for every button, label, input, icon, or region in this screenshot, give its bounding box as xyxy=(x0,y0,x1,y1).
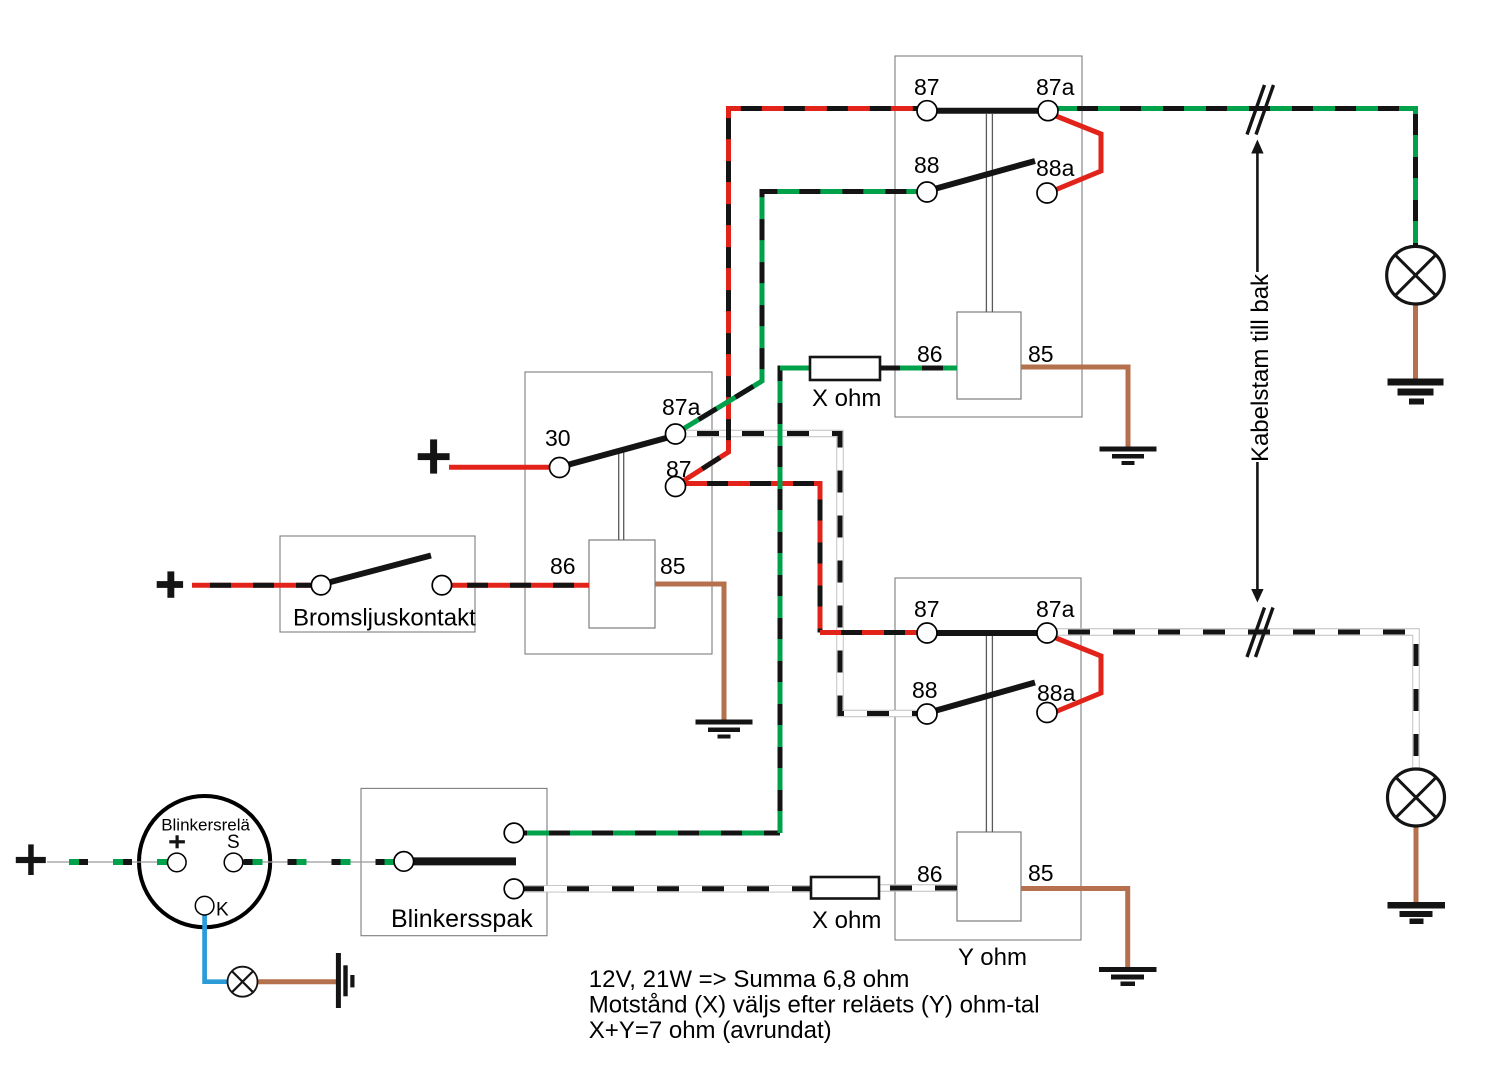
relay U1 coil xyxy=(957,312,1021,399)
svg-text:87: 87 xyxy=(914,74,940,100)
svg-text:X ohm: X ohm xyxy=(812,385,881,412)
svg-text:S: S xyxy=(227,832,240,853)
wire W20 brown lamp L3 to ground xyxy=(257,979,337,984)
wire W2 red/black +terminal to S1 left pin xyxy=(192,583,316,588)
wire W18 thin green/black K1-S pin to S2 left pin xyxy=(234,861,404,863)
switch S2 lower right pin xyxy=(504,879,524,899)
relay U3 coil xyxy=(957,832,1021,921)
ground GND5 below lamp L2 xyxy=(1388,902,1446,924)
svg-text:88: 88 xyxy=(914,152,940,178)
svg-text:86: 86 xyxy=(550,553,576,579)
relay K1 K pin xyxy=(195,896,214,915)
ground GND6 sideways right of lamp L3 xyxy=(336,953,355,1008)
relay K1 S pin xyxy=(224,853,243,872)
relay U3 contact bar 87-87a xyxy=(927,630,1047,636)
svg-text:87a: 87a xyxy=(662,394,701,420)
svg-text:Blinkersspak: Blinkersspak xyxy=(391,905,533,933)
svg-text:85: 85 xyxy=(660,553,686,579)
wire W6 red/black U2-87 to U3-87 xyxy=(678,484,927,633)
svg-text:X ohm: X ohm xyxy=(812,907,881,934)
resistor R2 X ohm xyxy=(811,877,879,899)
relay U1 pin 87 xyxy=(917,101,937,121)
svg-text:Bromsljuskontakt: Bromsljuskontakt xyxy=(293,605,476,632)
arrow Kabelstam till bak xyxy=(1251,140,1263,603)
wire W17 thin green/black +terminal to K1 plus pin xyxy=(47,861,177,863)
wire W14 white/black U3-87a to rear lamp L2 xyxy=(1047,632,1416,769)
svg-text:85: 85 xyxy=(1028,860,1054,886)
wire W5 red/black U2-87 up to U1-87 xyxy=(677,109,927,486)
wire W10 green/black U1-87a to rear lamp L1 xyxy=(1048,109,1416,248)
svg-text:Kabelstam till bak: Kabelstam till bak xyxy=(1247,273,1274,462)
ground GND4 below lamp L1 xyxy=(1388,379,1444,405)
relay U1 red bridge 87a-88a xyxy=(1055,116,1101,190)
relay U1 switch arm 88 xyxy=(936,161,1035,189)
wire W16 brown U3-85 to ground xyxy=(1021,889,1128,968)
svg-text:X+Y=7 ohm (avrundat): X+Y=7 ohm (avrundat) xyxy=(589,1017,832,1044)
svg-text:12V, 21W => Summa 6,8 ohm: 12V, 21W => Summa 6,8 ohm xyxy=(589,966,910,993)
relay U2 pin 87 xyxy=(666,477,686,497)
svg-text:88a: 88a xyxy=(1037,680,1076,706)
svg-text:87a: 87a xyxy=(1036,74,1075,100)
relay U2 pin 87a xyxy=(666,424,686,444)
svg-text:87a: 87a xyxy=(1036,596,1075,622)
relay U3 pin 88a xyxy=(1037,703,1057,723)
relay U2 box (middle relay) xyxy=(525,372,712,654)
svg-text:88: 88 xyxy=(912,677,938,703)
ground GND1 below U2 xyxy=(696,720,753,739)
lamp L3 indicator pilot xyxy=(228,967,258,997)
svg-text:86: 86 xyxy=(917,861,943,887)
wire W11 brown lamp L1 to ground xyxy=(1413,303,1418,379)
wire W12 white/black U2-87a to U3-88 xyxy=(676,434,927,714)
switch S1 left pin xyxy=(311,576,330,595)
relay U3 actuator link xyxy=(986,636,992,832)
relay K1 plus pin xyxy=(168,853,187,872)
resistor R1 X ohm xyxy=(810,357,880,380)
plus terminal P1 (to relay U2 pin 30) xyxy=(418,439,450,473)
switch S2 left pin xyxy=(394,852,414,872)
relay U3 pin 88 xyxy=(917,704,937,724)
ground GND3 below U3 xyxy=(1099,967,1157,986)
lamp L2 rear indicator bottom xyxy=(1388,769,1445,826)
relay K1 Blinkersrelä body circle xyxy=(139,796,270,927)
wire W9 brown U1-85 to ground xyxy=(1021,367,1128,447)
plus terminal P3 (to K1) xyxy=(16,844,46,875)
relay U3 pin 87a xyxy=(1037,623,1057,643)
wire W3 red/black S1 right pin to U2-86 xyxy=(448,583,589,588)
relay U1 actuator link xyxy=(986,114,992,312)
switch S2 upper right pin xyxy=(504,823,524,843)
svg-text:87: 87 xyxy=(666,456,692,482)
wire W1 red solid +terminal to U2-30 xyxy=(449,465,555,470)
wire W4 brown U2-85 to ground xyxy=(655,584,724,720)
wire W13 white/black S2 lower pin to resistor R2 to U3-86 xyxy=(524,884,957,892)
ground GND2 below U1 xyxy=(1100,447,1157,466)
relay U2 switch arm 30-87a xyxy=(569,438,668,465)
relay U1 box (top relay) xyxy=(895,56,1082,417)
relay U2 coil xyxy=(589,540,655,628)
svg-text:Y ohm: Y ohm xyxy=(958,944,1027,971)
svg-text:86: 86 xyxy=(917,341,943,367)
wire W19 blue K1-K to lamp L3 xyxy=(205,910,228,982)
switch S1 arm xyxy=(331,556,432,583)
cable break symbol bottom xyxy=(1247,608,1273,658)
svg-text:Motstånd (X) väljs efter reläe: Motstånd (X) väljs efter reläets (Y) ohm… xyxy=(589,992,1040,1019)
relay U2 pin 30 xyxy=(550,458,570,478)
svg-text:88a: 88a xyxy=(1036,155,1075,181)
svg-text:K: K xyxy=(216,900,229,921)
lamp L1 rear indicator top xyxy=(1387,246,1445,304)
cable break symbol top xyxy=(1247,85,1274,135)
switch S2 box Blinkersspak xyxy=(361,788,547,935)
relay U3 pin 87 xyxy=(917,623,937,643)
label K1 plus xyxy=(169,835,185,848)
svg-text:30: 30 xyxy=(545,425,571,451)
svg-text:85: 85 xyxy=(1028,341,1054,367)
relay U1 pin 88 xyxy=(917,182,937,202)
switch S1 box Bromsljuskontakt xyxy=(280,536,475,632)
relay U3 switch arm 88 xyxy=(936,683,1035,711)
switch S1 right pin xyxy=(432,576,451,595)
switch S2 lever xyxy=(414,857,517,865)
plus terminal P2 (to S1) xyxy=(157,571,183,597)
wire W8 green/black S2 upper pin to resistor R1 to U1-86 xyxy=(524,366,957,834)
wire W7 green/black U2-87a up to U1-88 xyxy=(679,192,927,432)
relay U3 box (bottom relay Y ohm) xyxy=(895,578,1081,940)
relay U1 contact bar 87-87a xyxy=(927,108,1048,114)
relay U3 red bridge 87a-88a xyxy=(1055,638,1101,712)
svg-text:87: 87 xyxy=(914,596,940,622)
wire W15 brown lamp L2 to ground xyxy=(1414,826,1419,903)
wire W19b blue over circle rim (redraw) xyxy=(202,912,207,930)
relay U1 pin 88a xyxy=(1037,183,1057,203)
relay U1 pin 87a xyxy=(1038,101,1058,121)
relay U2 actuator link xyxy=(619,449,624,540)
